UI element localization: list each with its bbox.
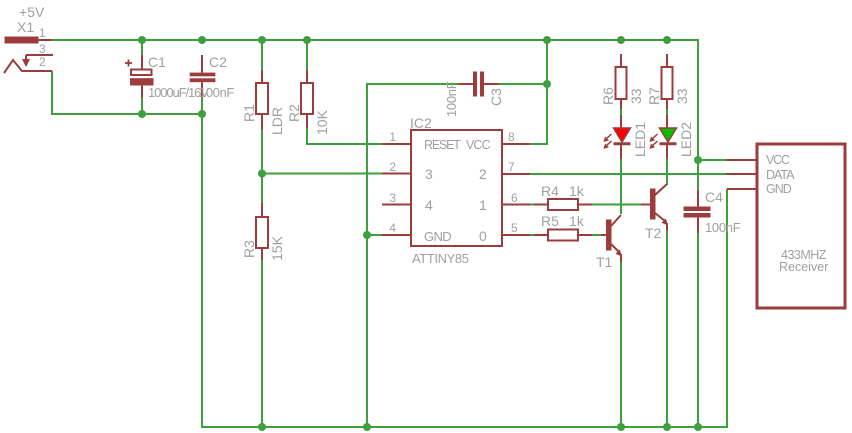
junction GND rail / T1 emitter bbox=[617, 423, 625, 431]
svg-text:100nF: 100nF bbox=[444, 81, 459, 117]
resistor R6 bbox=[616, 54, 627, 109]
svg-text:R4: R4 bbox=[541, 183, 559, 199]
wire R7 to LED2 gap bbox=[666, 109, 668, 115]
svg-text:VCC: VCC bbox=[766, 153, 790, 167]
junction GND rail / C4 bbox=[694, 423, 702, 431]
wire IC2 pin 8 to top rail bbox=[530, 40, 547, 144]
svg-text:RESET: RESET bbox=[424, 138, 461, 152]
connector X1 bbox=[4, 37, 53, 73]
svg-text:C1: C1 bbox=[148, 54, 166, 70]
svg-text:7: 7 bbox=[508, 160, 515, 174]
capacitor C3 bbox=[459, 72, 499, 96]
wire R4 right to T2 base bbox=[592, 204, 641, 206]
junction node ADC R1/R3 bbox=[258, 170, 266, 178]
svg-text:1k: 1k bbox=[569, 183, 585, 199]
junction VCC node at receiver bbox=[694, 156, 702, 164]
wire C1 top bbox=[141, 40, 143, 55]
svg-text:X1: X1 bbox=[17, 19, 34, 35]
wire C1 bottom bbox=[141, 98, 143, 114]
junction top rail / R2 bbox=[303, 36, 311, 44]
wire R1 bottom to R3 top (node ADC) bbox=[261, 130, 263, 203]
junction GND rail / R3 bbox=[258, 423, 266, 431]
wire R1 top bbox=[261, 40, 263, 70]
svg-text:15K: 15K bbox=[269, 235, 285, 261]
svg-text:10K: 10K bbox=[314, 109, 330, 135]
svg-text:100nF: 100nF bbox=[705, 220, 741, 235]
svg-text:4: 4 bbox=[425, 197, 433, 213]
transistor T2 bbox=[641, 184, 668, 231]
svg-text:GND: GND bbox=[766, 182, 792, 196]
transistor T1 bbox=[601, 215, 622, 262]
wire T2 emitter to GND rail bbox=[666, 231, 668, 427]
wire T1 emitter to GND rail bbox=[620, 262, 622, 427]
capacitor C1 (electrolytic) bbox=[125, 55, 153, 98]
svg-text:R6: R6 bbox=[600, 87, 616, 105]
svg-text:5: 5 bbox=[511, 221, 518, 235]
junction X1 gnd / C2 bbox=[198, 110, 206, 118]
junction GND rail / T2 emitter bbox=[663, 423, 671, 431]
svg-text:ATTINY85: ATTINY85 bbox=[412, 251, 469, 266]
svg-text:C4: C4 bbox=[705, 189, 723, 205]
wire LED2 cathode to T2 collector bbox=[666, 159, 668, 185]
wire R5 right to T1 base bbox=[592, 234, 601, 236]
LED1 (red) bbox=[604, 115, 631, 159]
wire IC2 pin 4 to GND column bbox=[367, 234, 382, 236]
junction GND rail / GND column bbox=[363, 423, 371, 431]
wire R2 top bbox=[306, 40, 308, 70]
svg-text:LED1: LED1 bbox=[632, 122, 648, 157]
svg-text:2: 2 bbox=[389, 160, 396, 174]
svg-text:R2: R2 bbox=[286, 104, 302, 122]
junction top rail / R6 bbox=[617, 36, 625, 44]
wire C3 right to VCC column bbox=[499, 83, 547, 85]
junction GND column / pin4 bbox=[363, 231, 371, 239]
svg-text:1k: 1k bbox=[569, 213, 585, 229]
svg-text:1: 1 bbox=[479, 197, 487, 213]
wire C4 bottom to GND rail bbox=[697, 233, 699, 427]
svg-text:GND: GND bbox=[424, 229, 451, 244]
LED2 (green) bbox=[650, 115, 677, 159]
svg-text:33: 33 bbox=[628, 88, 644, 104]
svg-text:R5: R5 bbox=[541, 213, 559, 229]
wire IC2 pin 6 to R4 bbox=[530, 204, 534, 206]
svg-text:3: 3 bbox=[39, 42, 46, 56]
svg-text:IC2: IC2 bbox=[410, 115, 432, 131]
capacitor C4 bbox=[684, 190, 710, 233]
svg-text:1: 1 bbox=[39, 26, 46, 40]
wire GND column to C3 left bbox=[367, 84, 459, 427]
svg-text:3: 3 bbox=[425, 166, 433, 182]
resistor R5 bbox=[534, 230, 592, 241]
svg-text:LDR: LDR bbox=[269, 107, 285, 135]
svg-text:VCC: VCC bbox=[466, 138, 491, 152]
junction top rail / C2 bbox=[198, 36, 206, 44]
junction C3 / VCC riser bbox=[543, 80, 551, 88]
capacitor C2 bbox=[190, 55, 216, 98]
svg-text:R7: R7 bbox=[646, 87, 662, 105]
svg-text:1: 1 bbox=[389, 130, 396, 144]
wire DATA net from IC2 pin 7 to receiver bbox=[530, 173, 726, 175]
wire +5V top rail from X1 pin1 to VCC column bbox=[52, 40, 698, 190]
svg-text:0: 0 bbox=[479, 228, 487, 244]
wire VCC node to receiver VCC pin bbox=[698, 159, 726, 161]
resistor R4 bbox=[534, 199, 592, 210]
resistor R3 bbox=[256, 203, 268, 260]
module U3 433MHZ receiver bbox=[726, 144, 845, 308]
svg-text:3: 3 bbox=[389, 191, 396, 205]
svg-text:100nF: 100nF bbox=[199, 85, 234, 100]
svg-text:2: 2 bbox=[39, 55, 46, 69]
wire node ADC to IC2 pin 2 bbox=[262, 173, 382, 175]
IC2 ATTINY85 bbox=[382, 130, 530, 246]
svg-text:6: 6 bbox=[511, 191, 518, 205]
svg-text:R1: R1 bbox=[241, 104, 257, 122]
junction top rail / pin8 riser bbox=[543, 36, 551, 44]
resistor R7 bbox=[662, 54, 673, 109]
svg-text:C2: C2 bbox=[209, 54, 227, 70]
svg-text:8: 8 bbox=[508, 130, 515, 144]
junction top rail / C1 bbox=[138, 36, 146, 44]
junction X1 gnd / C1 bbox=[138, 110, 146, 118]
svg-text:T2: T2 bbox=[645, 225, 662, 241]
wire GND from X1 pin2 to C2 column bbox=[52, 71, 202, 114]
junction top rail / R1 bbox=[258, 36, 266, 44]
svg-text:Receiver: Receiver bbox=[779, 260, 828, 274]
wire R6 to LED1 gap bbox=[620, 109, 622, 115]
svg-text:LED2: LED2 bbox=[678, 122, 694, 157]
wire C2 bottom to ground rail, bottom GND rail, up to receiver GND pin bbox=[202, 98, 727, 428]
svg-text:DATA: DATA bbox=[766, 168, 795, 182]
svg-text:4: 4 bbox=[389, 221, 396, 235]
svg-text:C3: C3 bbox=[488, 88, 504, 106]
svg-text:33: 33 bbox=[674, 88, 690, 104]
wire LED1 cathode to T1 collector bbox=[620, 159, 622, 214]
svg-text:R3: R3 bbox=[241, 240, 257, 258]
svg-text:T1: T1 bbox=[596, 254, 613, 270]
wire R2 bottom to IC2 pin 1 bbox=[307, 128, 382, 144]
svg-text:2: 2 bbox=[479, 166, 487, 182]
svg-text:+5V: +5V bbox=[19, 4, 45, 20]
wire R3 bottom to GND rail bbox=[261, 260, 263, 427]
resistor R2 bbox=[301, 70, 313, 128]
wire IC2 pin 5 to R5 bbox=[530, 234, 534, 236]
junction top rail / R7 bbox=[663, 36, 671, 44]
resistor R1 bbox=[256, 70, 268, 130]
